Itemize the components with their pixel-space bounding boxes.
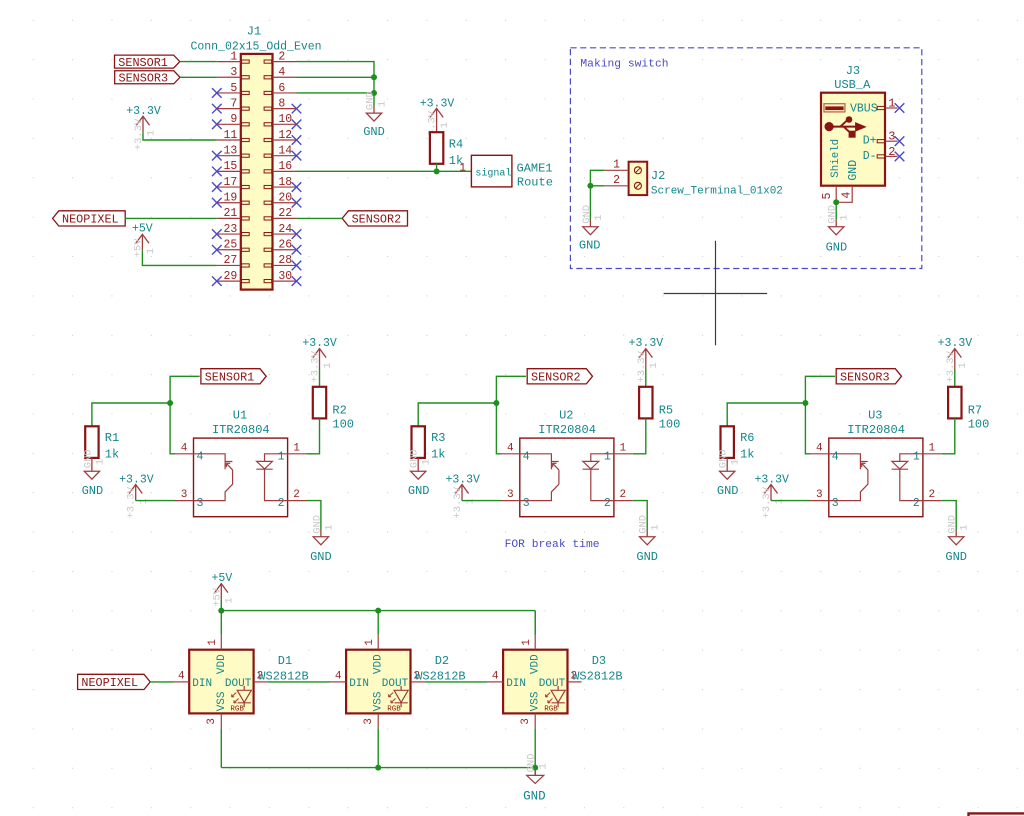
- svg-text:ITR20804: ITR20804: [847, 423, 905, 437]
- J1 pin 26: [273, 249, 297, 251]
- wire SENSOR2 drop: [496, 376, 526, 454]
- U2 pin 2: [614, 500, 633, 502]
- D2 pin 1 VDD: [377, 635, 379, 650]
- svg-text:3: 3: [520, 718, 532, 725]
- J3 pin 5 stub: [835, 186, 837, 203]
- svg-text:1: 1: [773, 498, 785, 504]
- svg-text:VSS: VSS: [530, 691, 542, 711]
- D3 pin 4 DIN: [488, 681, 503, 683]
- J1 pin 15: [217, 170, 241, 172]
- svg-text:R6: R6: [740, 431, 754, 445]
- svg-text:GND: GND: [526, 753, 538, 772]
- resistor R2: [313, 387, 326, 419]
- junction VSS D3: [532, 765, 538, 771]
- optocoupler U2 body: [520, 438, 614, 517]
- ground symbol bottom: [534, 771, 536, 775]
- svg-text:1: 1: [207, 639, 219, 646]
- svg-text:ITR20804: ITR20804: [538, 423, 596, 437]
- svg-text:1: 1: [839, 214, 851, 220]
- wire U3 pin2 to ground: [942, 501, 956, 529]
- svg-text:8: 8: [278, 97, 285, 110]
- wire pin4: [297, 76, 375, 78]
- svg-text:DOUT: DOUT: [225, 678, 252, 690]
- resistor R6: [721, 426, 734, 458]
- svg-text:1: 1: [322, 362, 334, 368]
- resistor R7: [948, 387, 961, 419]
- wire rail to D3 VDD: [534, 611, 536, 635]
- wire D3 to ground: [534, 768, 536, 776]
- svg-text:VBUS: VBUS: [850, 102, 878, 115]
- svg-text:GND: GND: [310, 550, 332, 564]
- connector J3 body: [821, 93, 885, 186]
- svg-text:GND: GND: [847, 160, 860, 181]
- svg-text:VDD: VDD: [373, 654, 385, 674]
- junction pin6/GND: [371, 90, 377, 96]
- svg-text:23: 23: [223, 223, 237, 236]
- J1 pin 25: [217, 249, 241, 251]
- svg-text:D1: D1: [278, 654, 292, 668]
- D1 pin 1 VDD: [220, 635, 222, 650]
- D2 emission arrows: [389, 693, 396, 703]
- svg-text:29: 29: [223, 270, 237, 283]
- svg-text:2: 2: [613, 174, 620, 187]
- svg-text:GND: GND: [581, 205, 593, 224]
- svg-text:9: 9: [230, 113, 237, 126]
- junction SENSOR3/R6: [802, 400, 808, 406]
- svg-text:DOUT: DOUT: [539, 678, 566, 690]
- sheet frame corner: [969, 813, 1024, 816]
- no-connect X pin 13: [212, 151, 222, 161]
- ground symbol near J1: [373, 107, 375, 114]
- J2 screw 1: [634, 167, 641, 174]
- svg-text:5: 5: [821, 193, 834, 200]
- wire to R6: [727, 403, 805, 426]
- svg-text:VSS: VSS: [373, 691, 385, 711]
- J1 pin 3: [217, 76, 241, 78]
- connector J2 body: [629, 162, 648, 195]
- resistor R1: [85, 426, 98, 458]
- graphic line horizontal: [664, 293, 768, 295]
- J1 pin 21: [217, 217, 241, 219]
- D3 LED symbol: [551, 686, 565, 707]
- D2 pin 2 DOUT: [411, 681, 425, 683]
- U2 phototransistor: [520, 454, 559, 501]
- wire R2 to U1 pin1: [307, 418, 320, 453]
- wire J3 to ground: [835, 202, 837, 219]
- connector J1 body: [241, 54, 273, 290]
- no-connect X D+: [895, 136, 905, 146]
- svg-text:3: 3: [230, 66, 237, 79]
- LED D2 body: [346, 650, 410, 714]
- svg-text:2: 2: [293, 489, 300, 501]
- wire NEOPIXEL to pin21: [125, 217, 217, 219]
- svg-text:R1: R1: [105, 431, 119, 445]
- svg-text:R7: R7: [968, 404, 982, 418]
- global label NEOPIXEL bottom: [78, 674, 151, 689]
- wire +3.3V to U1 pin3: [136, 500, 175, 502]
- svg-text:+3.3V: +3.3V: [452, 486, 464, 518]
- wire +3.3V to R4: [436, 124, 438, 132]
- wire SENSOR3 drop: [805, 376, 835, 454]
- svg-text:10: 10: [278, 113, 292, 126]
- svg-text:GND: GND: [82, 484, 104, 498]
- svg-text:J3: J3: [846, 64, 860, 78]
- no-connect X pin 30: [292, 276, 302, 286]
- wire D2 DOUT to D3 DIN: [425, 681, 488, 683]
- svg-text:SENSOR1: SENSOR1: [205, 371, 255, 385]
- svg-text:7: 7: [230, 97, 237, 110]
- no-connect X pin 7: [212, 104, 222, 114]
- svg-text:1: 1: [145, 130, 157, 136]
- svg-text:RGB: RGB: [230, 706, 244, 714]
- svg-text:signal: signal: [475, 168, 511, 180]
- svg-text:20: 20: [278, 192, 292, 205]
- U3 pin 4: [810, 453, 829, 455]
- J1 pin 30: [273, 280, 297, 282]
- no-connect X pin 17: [212, 182, 222, 192]
- wire +3.3V to pin11: [143, 132, 217, 140]
- J1 pin 24: [273, 233, 297, 235]
- svg-text:SENSOR2: SENSOR2: [531, 371, 581, 385]
- svg-text:4: 4: [492, 670, 499, 682]
- svg-text:1: 1: [224, 597, 236, 603]
- svg-text:3: 3: [197, 497, 204, 510]
- D1 pin 3 VSS: [220, 713, 222, 728]
- svg-text:2: 2: [928, 489, 935, 501]
- no-connect X D-: [895, 152, 905, 162]
- svg-text:SENSOR2: SENSOR2: [352, 213, 402, 227]
- J1 pin 16: [273, 170, 297, 172]
- svg-text:6: 6: [278, 82, 285, 95]
- ground symbol at U3 pin2: [955, 529, 957, 537]
- USB receptacle icon: [824, 104, 845, 112]
- svg-text:GND: GND: [947, 515, 959, 534]
- svg-text:1: 1: [464, 498, 476, 504]
- svg-text:GND: GND: [408, 484, 430, 498]
- svg-text:Conn_02x15_Odd_Even: Conn_02x15_Odd_Even: [190, 40, 321, 53]
- wire D1 VSS drop: [220, 728, 222, 767]
- svg-text:28: 28: [278, 254, 292, 267]
- U2 pin 1: [614, 453, 633, 455]
- svg-text:17: 17: [223, 176, 237, 189]
- U2 pin 4: [501, 453, 520, 455]
- svg-text:1: 1: [650, 524, 662, 530]
- dashed group box Making switch: [570, 48, 921, 269]
- svg-text:21: 21: [223, 207, 237, 220]
- resistor R3: [412, 426, 425, 458]
- svg-text:3: 3: [181, 489, 188, 501]
- svg-text:100: 100: [968, 418, 990, 432]
- wire rail drop D2: [377, 611, 379, 635]
- no-connect X pin 5: [212, 88, 222, 98]
- U3 photodiode: [892, 454, 923, 501]
- junction J2 GND: [587, 183, 593, 189]
- wire pin6: [297, 92, 375, 94]
- svg-text:1: 1: [593, 214, 605, 220]
- graphic line vertical: [715, 241, 717, 345]
- svg-text:SENSOR3: SENSOR3: [119, 72, 169, 86]
- wire +5V to pin27: [142, 250, 216, 265]
- svg-text:U3: U3: [868, 408, 882, 422]
- LED D3 body: [503, 650, 567, 714]
- wire +3.3V to R7: [954, 365, 956, 370]
- svg-text:GND: GND: [364, 91, 376, 110]
- U2 pin 3: [501, 500, 520, 502]
- svg-text:3: 3: [888, 130, 895, 144]
- D3 pin 2 DOUT: [568, 681, 582, 683]
- svg-text:14: 14: [278, 144, 292, 157]
- svg-text:4: 4: [816, 442, 823, 454]
- J1 pin 14: [273, 155, 297, 157]
- svg-text:1: 1: [928, 442, 935, 454]
- wire to R3: [418, 403, 496, 426]
- ground symbol below R3: [417, 458, 419, 471]
- no-connect X pin 25: [212, 245, 222, 255]
- U3 pin 1: [923, 453, 942, 455]
- no-connect X pin 29: [212, 276, 222, 286]
- junction VSS D2: [375, 765, 381, 771]
- svg-text:ITR20804: ITR20804: [212, 423, 270, 437]
- svg-text:4: 4: [832, 450, 839, 463]
- resistor R5: [639, 387, 652, 419]
- svg-text:100: 100: [659, 418, 681, 432]
- svg-text:GND: GND: [311, 515, 323, 534]
- svg-text:22: 22: [278, 207, 292, 220]
- svg-text:4: 4: [507, 442, 514, 454]
- svg-text:RGB: RGB: [544, 706, 558, 714]
- svg-text:15: 15: [223, 160, 237, 173]
- svg-text:DIN: DIN: [349, 678, 369, 690]
- svg-text:3: 3: [206, 718, 218, 725]
- ground symbol at U2 pin2: [646, 529, 648, 537]
- svg-text:12: 12: [278, 129, 292, 142]
- svg-text:+5V: +5V: [212, 572, 233, 585]
- svg-text:1: 1: [293, 442, 300, 454]
- svg-text:VDD: VDD: [530, 654, 542, 674]
- svg-text:24: 24: [278, 223, 292, 236]
- wire +3.3V to U3 pin3: [771, 500, 810, 502]
- svg-text:1: 1: [145, 248, 157, 254]
- LED D1 body: [189, 650, 253, 714]
- svg-text:D-: D-: [863, 150, 877, 163]
- U1 pin 1: [288, 453, 307, 455]
- no-connect X pin 9: [212, 120, 222, 130]
- wire rail drop D1: [220, 611, 222, 635]
- svg-text:D3: D3: [592, 654, 606, 668]
- svg-text:2: 2: [913, 497, 920, 510]
- wire pin16 to sheet: [297, 170, 472, 172]
- svg-text:GND: GND: [409, 449, 421, 468]
- J1 pin 13: [217, 155, 241, 157]
- svg-text:DOUT: DOUT: [382, 678, 409, 690]
- svg-text:J1: J1: [247, 25, 261, 39]
- svg-text:2: 2: [619, 489, 626, 501]
- U3 pin 2: [923, 500, 942, 502]
- J1 pin 17: [217, 186, 241, 188]
- wire SENSOR3 to pin3: [180, 76, 217, 78]
- U3 phototransistor: [829, 454, 868, 501]
- global label SENSOR1: [201, 369, 266, 384]
- wire SENSOR1 drop: [170, 376, 200, 454]
- J1 pin 6: [273, 92, 297, 94]
- global label SENSOR2: [527, 369, 592, 384]
- U1 pin 2: [288, 500, 307, 502]
- J1 pin 23: [217, 233, 241, 235]
- svg-text:GND: GND: [717, 484, 739, 498]
- no-connect X pin 24: [292, 229, 302, 239]
- wire pin2 to GND net: [297, 62, 375, 107]
- J2 pin 1: [605, 169, 629, 171]
- svg-text:1: 1: [957, 362, 969, 368]
- wire J2 pin2: [590, 185, 604, 187]
- wire D3 VSS drop: [534, 728, 536, 767]
- J1 pin 12: [273, 139, 297, 141]
- junction SENSOR2/R3: [493, 400, 499, 406]
- svg-text:VDD: VDD: [216, 654, 228, 674]
- svg-text:4: 4: [841, 192, 854, 199]
- svg-text:13: 13: [223, 144, 237, 157]
- no-connect X VBUS: [895, 103, 905, 113]
- global label SENSOR2: [342, 211, 407, 226]
- svg-text:Screw_Terminal_01x02: Screw_Terminal_01x02: [651, 185, 783, 197]
- svg-text:18: 18: [278, 176, 292, 189]
- svg-text:D2: D2: [435, 654, 449, 668]
- junction R4/pin16: [434, 168, 440, 174]
- no-connect X pin 14: [292, 151, 302, 161]
- svg-text:1: 1: [323, 524, 335, 530]
- svg-text:DIN: DIN: [506, 678, 526, 690]
- J1 pin 20: [273, 202, 297, 204]
- wire to R1: [92, 403, 170, 426]
- svg-text:J2: J2: [651, 169, 665, 183]
- no-connect X pin 10: [292, 120, 302, 130]
- junction rail D2: [375, 608, 381, 614]
- global label SENSOR3: [115, 71, 180, 84]
- svg-text:1: 1: [439, 122, 451, 128]
- svg-text:1: 1: [959, 524, 971, 530]
- J1 pin 8: [273, 108, 297, 110]
- svg-text:1k: 1k: [740, 448, 754, 462]
- ground symbol below J3: [835, 219, 837, 227]
- svg-text:NEOPIXEL: NEOPIXEL: [81, 676, 138, 690]
- J1 pin 27: [217, 264, 241, 266]
- wire R7 to U3 pin1: [942, 418, 955, 453]
- svg-text:Shield: Shield: [830, 139, 842, 178]
- optocoupler U3 body: [829, 438, 923, 517]
- svg-text:1k: 1k: [431, 448, 445, 462]
- svg-text:3: 3: [507, 489, 514, 501]
- wire +3.3V to R2: [319, 365, 321, 370]
- D3 emission arrows: [546, 693, 553, 703]
- wire +3.3V to U2 pin3: [462, 500, 501, 502]
- wire NEOPIXEL to D1 DIN: [150, 681, 174, 683]
- wire J2 pin1: [590, 170, 604, 219]
- svg-text:GND: GND: [827, 205, 839, 224]
- no-connect X pin 20: [292, 198, 302, 208]
- J1 pin 2: [273, 61, 297, 63]
- svg-text:5: 5: [230, 82, 237, 95]
- svg-text:1: 1: [613, 159, 620, 172]
- no-connect X pin 28: [292, 261, 302, 271]
- optocoupler U1 body: [194, 438, 288, 517]
- svg-text:2: 2: [278, 50, 285, 63]
- wire +5V rail: [221, 610, 535, 612]
- svg-text:1: 1: [376, 101, 388, 107]
- U1 photodiode: [256, 454, 287, 501]
- svg-text:USB_A: USB_A: [834, 78, 871, 92]
- J2 screw 2: [634, 182, 641, 189]
- D3 pin 1 VDD: [534, 635, 536, 650]
- svg-text:GND: GND: [638, 515, 650, 534]
- wire rail drop D3: [534, 611, 536, 635]
- svg-text:GND: GND: [718, 449, 730, 468]
- svg-text:SENSOR1: SENSOR1: [118, 56, 168, 70]
- global label NEOPIXEL: [53, 211, 126, 226]
- svg-text:3: 3: [363, 718, 375, 725]
- no-connect X pin 23: [212, 229, 222, 239]
- svg-text:27: 27: [223, 254, 237, 267]
- svg-text:R4: R4: [449, 138, 463, 152]
- D2 LED symbol: [394, 686, 408, 707]
- svg-text:2: 2: [604, 497, 611, 510]
- wire VSS rail: [221, 767, 535, 769]
- svg-text:GND: GND: [579, 239, 601, 253]
- wire pin22 to SENSOR2: [297, 217, 343, 219]
- svg-text:1: 1: [648, 362, 660, 368]
- svg-text:GND: GND: [363, 125, 385, 139]
- junction SENSOR1/R1: [167, 400, 173, 406]
- J1 pin 22: [273, 217, 297, 219]
- no-connect X pin 18: [292, 182, 302, 192]
- junction pin4/GND: [371, 74, 377, 80]
- J1 pin 9: [217, 123, 241, 125]
- global label SENSOR1: [115, 55, 180, 68]
- junction rail D1: [218, 608, 224, 614]
- svg-text:3: 3: [832, 497, 839, 510]
- U1 pin 4: [175, 453, 194, 455]
- svg-text:1k: 1k: [105, 448, 119, 462]
- svg-text:GND: GND: [523, 790, 546, 804]
- svg-text:R2: R2: [332, 404, 346, 418]
- resistor R4: [430, 132, 443, 164]
- svg-text:+3.3V: +3.3V: [761, 486, 773, 518]
- svg-text:U1: U1: [233, 408, 247, 422]
- svg-text:3: 3: [816, 489, 823, 501]
- svg-text:Route: Route: [517, 176, 553, 190]
- svg-text:GND: GND: [82, 449, 94, 468]
- svg-text:4: 4: [335, 670, 342, 682]
- ground symbol below J2: [589, 219, 591, 227]
- D1 pin 4 DIN: [174, 681, 189, 683]
- svg-text:16: 16: [278, 160, 292, 173]
- J1 pin 29: [217, 280, 241, 282]
- svg-text:1: 1: [421, 459, 433, 465]
- svg-text:NEOPIXEL: NEOPIXEL: [62, 213, 119, 227]
- svg-text:1: 1: [730, 459, 742, 465]
- wire U1 pin2 to ground: [307, 501, 321, 529]
- junction J3 GND: [833, 199, 839, 205]
- svg-text:R5: R5: [659, 404, 673, 418]
- svg-text:25: 25: [223, 239, 237, 252]
- wire R4 to net: [436, 164, 438, 172]
- J3 pin 4 stub: [836, 186, 852, 203]
- D2 pin 3 VSS: [377, 713, 379, 728]
- svg-text:1: 1: [913, 450, 920, 463]
- U3 pin 3: [810, 500, 829, 502]
- J1 pin 19: [217, 202, 241, 204]
- wire +3.3V to R5: [645, 365, 647, 370]
- svg-text:FOR break time: FOR break time: [505, 539, 600, 551]
